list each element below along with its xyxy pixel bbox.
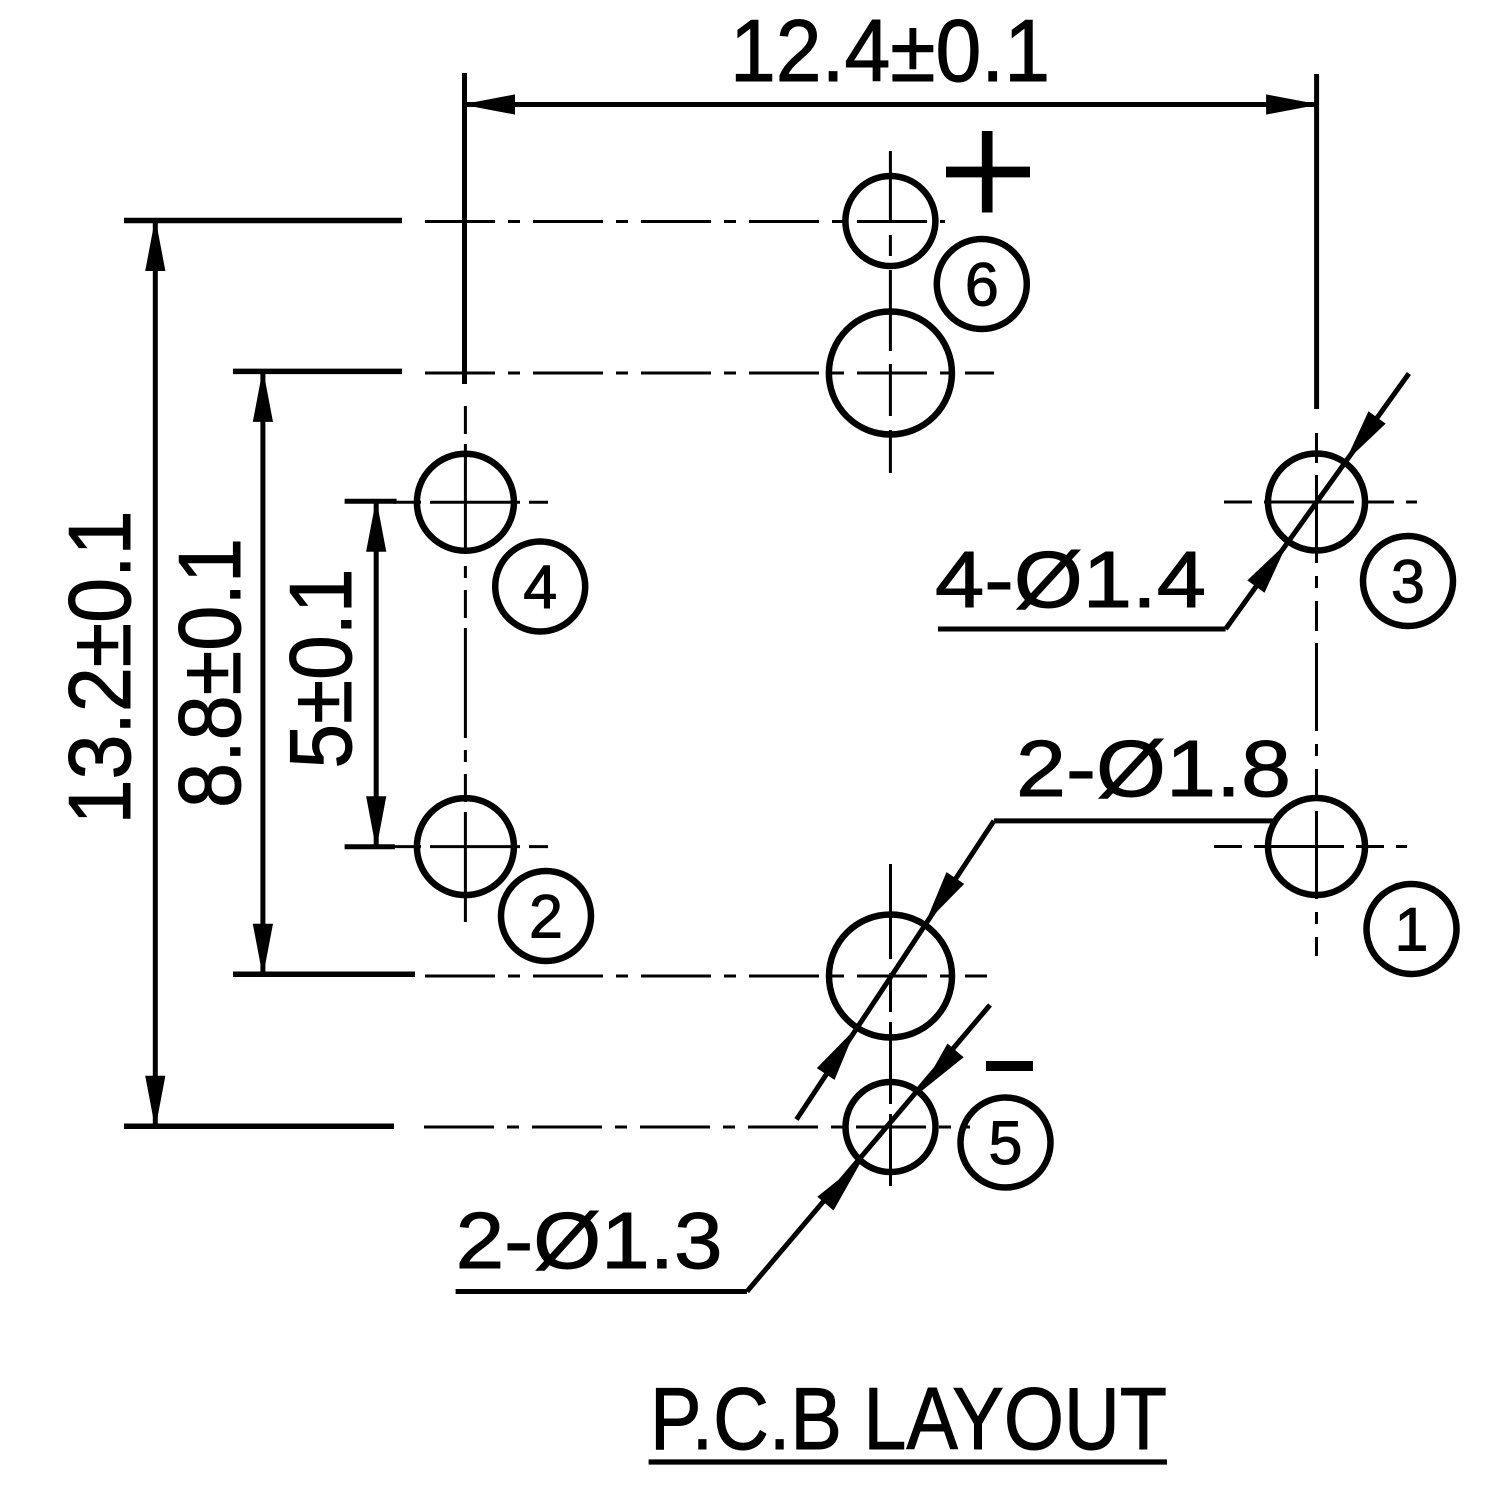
- pad hole 2 (ø1.4): [417, 798, 514, 895]
- leader arrow lower (pad 3): [1248, 544, 1286, 592]
- balloon label 2: [501, 871, 591, 961]
- balloon label 3: [1363, 536, 1453, 626]
- svg-text:P.C.B LAYOUT: P.C.B LAYOUT: [650, 1369, 1167, 1468]
- leader line to pad -: [797, 821, 994, 1120]
- extension line top (13.2 dim): [124, 218, 402, 224]
- dimension line 8.8: [260, 371, 265, 974]
- balloon label 1: [1367, 884, 1457, 974]
- arrowhead bottom (5): [367, 797, 386, 847]
- leader underline 2-ø1.8: [994, 818, 1273, 823]
- dimension line 13.2: [153, 221, 158, 1127]
- leader line to pad 3: [1226, 374, 1409, 630]
- svg-text:12.4±0.1: 12.4±0.1: [730, 1, 1050, 100]
- arrowhead left (12.4): [465, 95, 515, 114]
- dimension line 12.4: [465, 102, 1317, 107]
- pad hole 5 (ø1.3): [846, 1082, 936, 1172]
- balloon label 6: [937, 239, 1027, 329]
- extension line bottom (8.8 dim): [233, 972, 415, 978]
- pad hole 3 (ø1.4): [1268, 454, 1365, 551]
- svg-text:1: 1: [1395, 896, 1429, 964]
- centerline vertical pads 6 and top 1.8: [889, 151, 892, 473]
- svg-text:8.8±0.1: 8.8±0.1: [160, 538, 259, 808]
- balloon label 4: [495, 542, 585, 632]
- leader arrow upper (pad -): [926, 873, 963, 922]
- arrowhead bottom (13.2): [146, 1076, 165, 1126]
- leader arrow lower (pad -): [818, 1030, 855, 1079]
- svg-text:4-Ø1.4: 4-Ø1.4: [935, 535, 1206, 624]
- extension line top (8.8 dim): [233, 369, 402, 375]
- svg-text:6: 6: [965, 251, 999, 319]
- arrowhead right (12.4): [1267, 95, 1317, 114]
- leader arrow upper (pad 5): [922, 1044, 963, 1090]
- centerline horizontal pad 5: [424, 1126, 970, 1129]
- arrowhead top (5): [367, 501, 386, 551]
- pad hole 4 (ø1.4): [417, 454, 514, 551]
- extension line right (12.4 dim): [1314, 74, 1319, 409]
- dimension line 5: [374, 501, 379, 847]
- extension tick top (5 dim): [345, 499, 397, 504]
- centerline vertical pads bottom 1.8 and 5: [889, 864, 892, 1186]
- centerline horizontal pad - (1.8 bottom): [425, 975, 987, 978]
- leader line to pad 5: [747, 1005, 990, 1292]
- title underline: [649, 1459, 1167, 1464]
- centerline horizontal pad 1: [1214, 845, 1407, 848]
- svg-text:2-Ø1.8: 2-Ø1.8: [1016, 724, 1291, 813]
- pad hole 1 (ø1.4): [1268, 798, 1365, 895]
- svg-text:3: 3: [1391, 548, 1425, 616]
- arrowhead top (8.8): [253, 371, 272, 421]
- arrowhead top (13.2): [146, 221, 165, 271]
- pad hole + (ø1.8 top): [829, 312, 952, 435]
- centerline horizontal pad 4: [393, 501, 548, 504]
- svg-text:5: 5: [989, 1109, 1023, 1177]
- svg-text:5±0.1: 5±0.1: [271, 569, 370, 769]
- minus polarity mark: [986, 1061, 1033, 1071]
- extension tick bottom (5 dim): [345, 844, 395, 849]
- extension line bottom (13.2 dim): [124, 1124, 394, 1130]
- leader arrow lower (pad 5): [818, 1164, 859, 1210]
- svg-text:2: 2: [529, 883, 563, 951]
- pad hole 6 (ø1.3): [845, 176, 935, 266]
- svg-text:13.2±0.1: 13.2±0.1: [50, 511, 149, 825]
- centerline vertical pads 3 and 1: [1315, 433, 1318, 956]
- plus polarity mark: [946, 167, 1030, 178]
- centerline horizontal pad 3: [1224, 501, 1417, 504]
- leader underline 4-ø1.4: [938, 627, 1226, 632]
- svg-text:2-Ø1.3: 2-Ø1.3: [456, 1196, 723, 1285]
- extension line left (12.4 dim): [462, 73, 467, 384]
- arrowhead bottom (8.8): [253, 924, 272, 974]
- leader underline 2-ø1.3: [456, 1289, 747, 1294]
- balloon label 5: [961, 1098, 1051, 1188]
- svg-text:4: 4: [523, 553, 557, 621]
- centerline horizontal pad 6: [425, 220, 945, 223]
- centerline vertical pads 4 and 2: [464, 406, 467, 929]
- pad hole - (ø1.8 bottom): [829, 915, 952, 1038]
- centerline horizontal pad + (1.8 top): [425, 372, 994, 375]
- leader arrow upper (pad 3): [1347, 412, 1385, 460]
- centerline horizontal pad 2: [393, 845, 548, 848]
